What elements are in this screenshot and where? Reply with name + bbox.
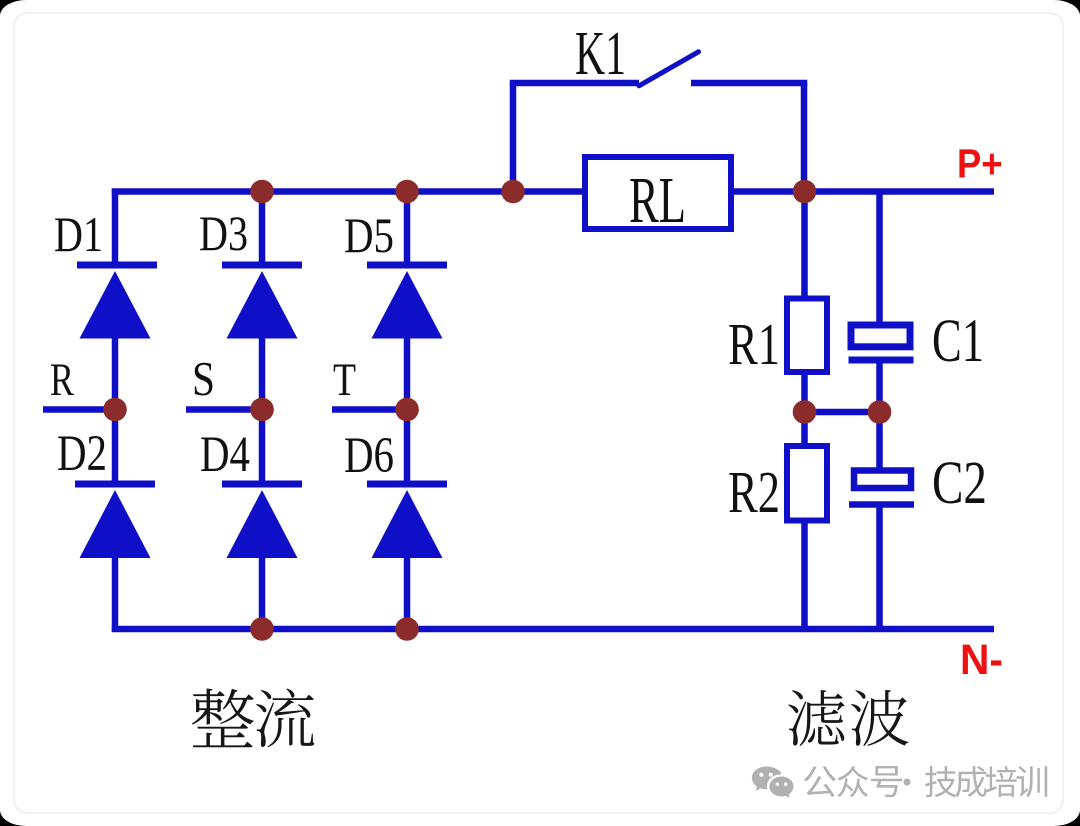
watermark char 培: [986, 766, 1017, 797]
watermark WeChat icon: [752, 767, 794, 799]
capacitor C2 bottom plate: [849, 501, 914, 508]
watermark char 技: [925, 766, 956, 797]
svg-text:T: T: [333, 354, 356, 406]
resistor R1 box: [787, 299, 827, 373]
wire: T phase stub: [332, 406, 407, 413]
node: junction bottom bus / D6: [395, 617, 419, 641]
svg-text:RL: RL: [629, 164, 686, 237]
svg-text:C1: C1: [932, 308, 984, 375]
svg-text:N-: N-: [960, 637, 1003, 684]
svg-text:D5: D5: [344, 207, 394, 263]
svg-text:D1: D1: [54, 206, 103, 262]
wire: column D3/D4 verticals: [259, 189, 266, 633]
wire: column D5/D6 verticals: [404, 189, 411, 633]
caption 滤 (filter): [788, 690, 845, 746]
svg-text:D6: D6: [344, 428, 394, 484]
svg-text:K1: K1: [575, 20, 626, 88]
wire: K1 branch right vertical: [801, 83, 808, 192]
wire: C1 branch top vertical: [876, 192, 883, 326]
diode D1: [77, 265, 157, 339]
wire: K1 branch top-right horizontal: [691, 80, 807, 87]
node: junction top bus / R1: [793, 180, 817, 204]
node: junction C1-C2 node: [868, 400, 892, 424]
wire: N- bottom bus: [112, 626, 994, 633]
wire: K1 branch top-left horizontal: [510, 80, 639, 87]
watermark char 公: [804, 766, 836, 797]
capacitor C1 top plate: [851, 325, 910, 347]
svg-text:D3: D3: [199, 205, 248, 261]
wire: R1 to node vertical: [801, 374, 808, 412]
wire: R2 bottom vertical: [801, 521, 808, 629]
wire: R1 branch top vertical: [801, 192, 808, 299]
node: junction T phase: [395, 398, 419, 422]
node: junction top bus / D3: [250, 180, 274, 204]
wire: K1 branch left vertical: [510, 83, 517, 192]
capacitor C2 top plate: [854, 471, 911, 489]
caption 流 (rectifier): [256, 688, 314, 747]
watermark char 众: [837, 766, 868, 797]
wire: S phase stub: [186, 406, 262, 413]
svg-text:D4: D4: [200, 427, 250, 483]
diode D6: [367, 484, 447, 558]
node: junction S phase: [250, 398, 274, 422]
resistor R2 box: [787, 446, 827, 521]
diode D4: [222, 484, 302, 558]
svg-text:C2: C2: [932, 450, 987, 517]
svg-text:R1: R1: [728, 311, 780, 377]
wire: R-C middle link: [805, 409, 880, 416]
svg-text:R2: R2: [728, 459, 780, 525]
node: junction top bus / D5: [395, 180, 419, 204]
svg-text:S: S: [192, 351, 215, 406]
switch K1 blade: [639, 52, 699, 86]
wire: node to C2 vertical: [876, 412, 883, 472]
svg-text:D2: D2: [57, 426, 107, 482]
node: junction R phase: [103, 398, 127, 422]
wire: R phase stub: [43, 406, 115, 413]
watermark separator dot: [903, 778, 910, 785]
node: junction bottom bus / D4: [250, 617, 274, 641]
wire: node to R2 vertical: [801, 412, 808, 445]
watermark char 训: [1016, 766, 1047, 797]
wire: P+ top bus left segment: [112, 188, 585, 195]
capacitor C1 bottom plate: [849, 357, 914, 364]
svg-text:R: R: [50, 354, 74, 406]
resistor RL box: [585, 157, 731, 229]
wire: C2 bottom vertical: [876, 505, 883, 630]
caption 整 (rectifier): [192, 688, 254, 747]
diode D3: [222, 265, 302, 339]
caption 波 (filter): [851, 690, 909, 746]
diode D5: [367, 265, 447, 339]
node: junction R1-R2 node: [793, 400, 817, 424]
wire: C1 to node vertical: [876, 360, 883, 412]
diode D2: [75, 484, 155, 558]
svg-text:P+: P+: [957, 141, 1003, 187]
node: junction top bus / K1 left: [501, 180, 525, 204]
wire: P+ top bus right segment: [731, 188, 994, 195]
watermark char 号: [871, 766, 902, 797]
watermark char 成: [956, 766, 987, 797]
wire: column D1/D2 verticals: [112, 189, 119, 633]
